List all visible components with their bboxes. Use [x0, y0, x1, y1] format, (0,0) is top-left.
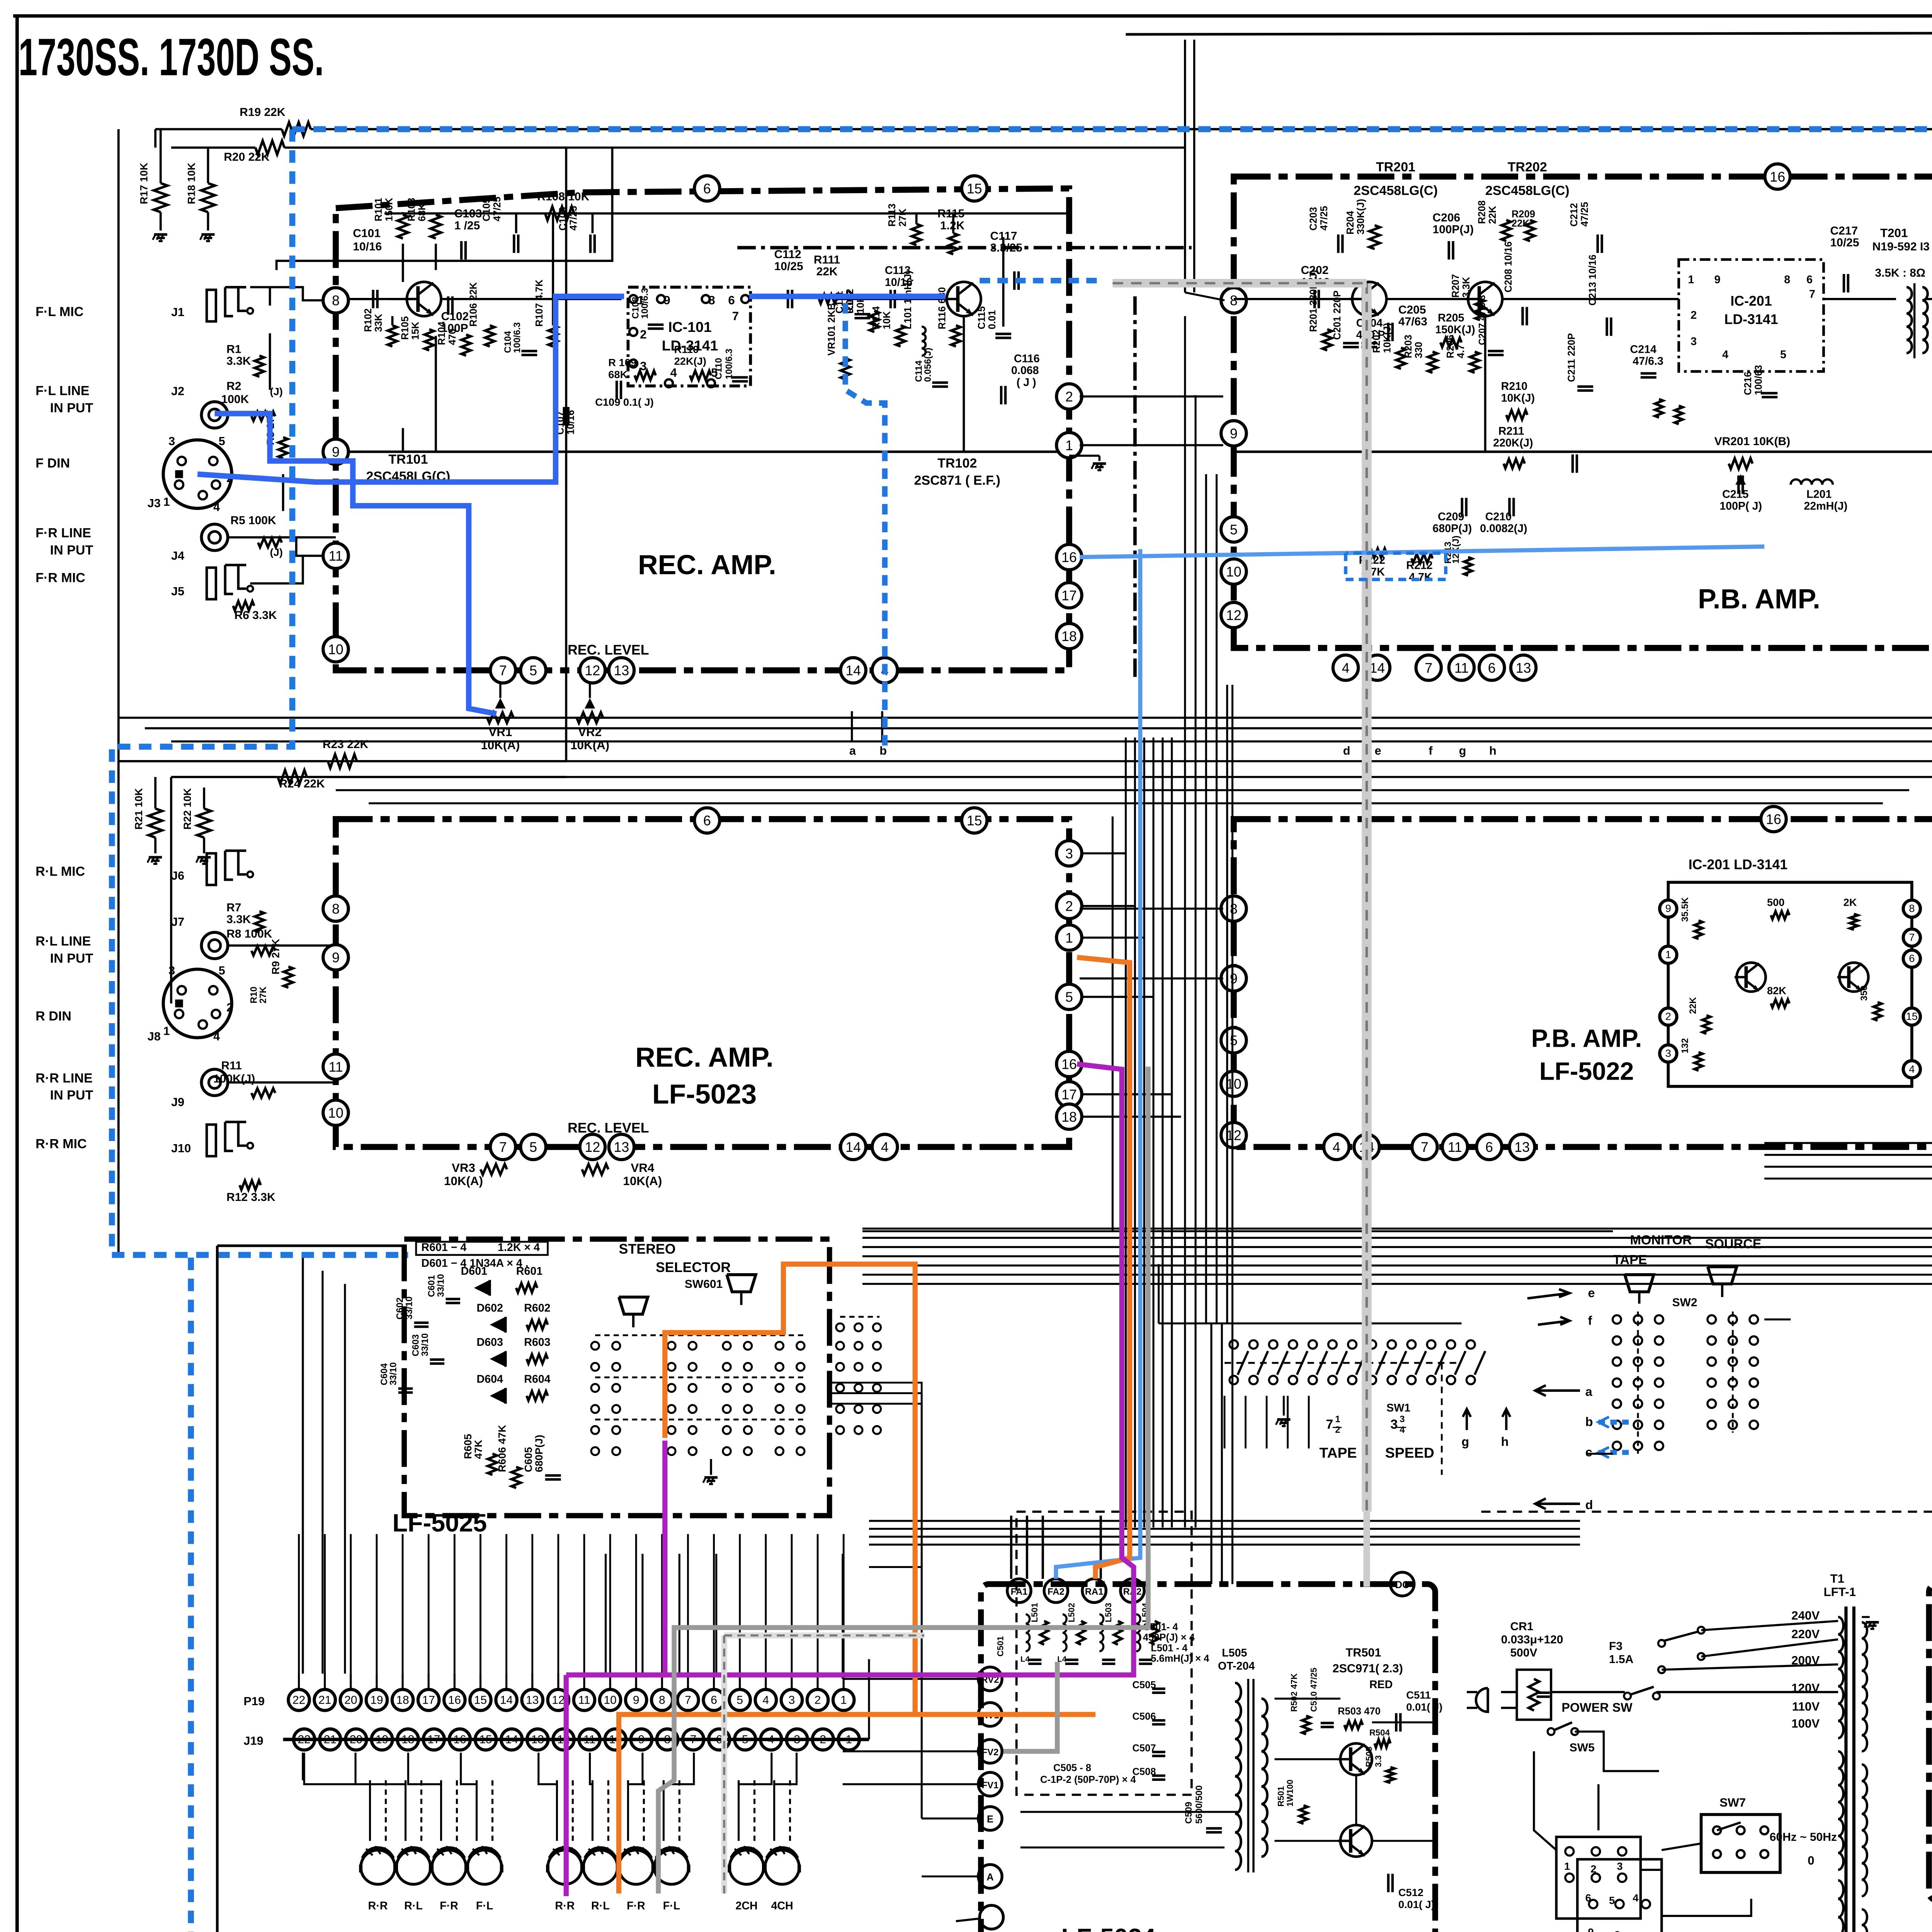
horizontal bus 600	[336, 790, 1909, 791]
svg-text:33K: 33K	[373, 314, 384, 332]
svg-text:33/10: 33/10	[420, 1333, 430, 1356]
svg-text:500V: 500V	[1510, 1646, 1537, 1659]
svg-text:5: 5	[529, 1139, 537, 1155]
IC-201 mid transistor 1	[1735, 963, 1766, 992]
connector J19 row	[294, 1729, 315, 1750]
svg-text:4CH: 4CH	[771, 1900, 793, 1912]
head bus wires	[303, 1753, 303, 1781]
svg-text:F DIN: F DIN	[36, 456, 70, 471]
svg-text:8: 8	[1230, 293, 1238, 308]
svg-text:1: 1	[163, 1025, 170, 1038]
bus into sw1	[1224, 1396, 1225, 1448]
mid horizontal bundle	[862, 1228, 1932, 1229]
svg-text:1: 1	[1564, 1860, 1570, 1872]
IC-201 mid transistor 2	[1837, 963, 1869, 992]
T1 ground	[1866, 1622, 1879, 1622]
svg-text:8: 8	[1909, 902, 1915, 914]
svg-text:J7: J7	[171, 915, 184, 929]
monitor knob	[1625, 1275, 1654, 1292]
blue dash c	[1599, 1452, 1633, 1453]
svg-text:SELECTOR: SELECTOR	[656, 1260, 731, 1275]
svg-text:R 109: R 109	[608, 357, 636, 369]
svg-text:VR3: VR3	[452, 1161, 475, 1175]
wire left bus vertical	[118, 129, 119, 761]
svg-text:REC. AMP.: REC. AMP.	[635, 1042, 774, 1073]
svg-text:4: 4	[213, 1030, 220, 1043]
svg-text:R103: R103	[406, 198, 417, 221]
svg-text:5.6mH(J) × 4: 5.6mH(J) × 4	[1151, 1653, 1209, 1664]
svg-text:R208: R208	[1477, 201, 1488, 224]
svg-text:(J): (J)	[270, 386, 283, 398]
svg-text:FA1: FA1	[1011, 1587, 1028, 1597]
svg-text:5600/500: 5600/500	[1194, 1785, 1204, 1823]
long horizontals mid	[119, 717, 1932, 718]
ground R17	[154, 234, 167, 235]
REC AMP block border	[336, 189, 1069, 670]
svg-text:R9 27K: R9 27K	[269, 939, 281, 975]
rca jack J7	[201, 932, 228, 959]
svg-text:C110: C110	[713, 358, 724, 379]
svg-text:g: g	[1459, 744, 1466, 757]
svg-text:J2: J2	[171, 385, 184, 398]
svg-text:J4: J4	[171, 549, 184, 563]
svg-text:470: 470	[447, 329, 458, 345]
purple head drop	[565, 1675, 567, 1896]
svg-text:3.3K: 3.3K	[1461, 277, 1472, 298]
LF-5024 block border	[981, 1584, 1435, 1932]
svg-text:T201: T201	[1880, 226, 1908, 240]
svg-text:R207: R207	[1451, 274, 1461, 298]
svg-text:15: 15	[967, 181, 982, 197]
terminal RA2	[1121, 1579, 1144, 1602]
svg-text:0: 0	[1808, 1854, 1814, 1867]
LF-5023 pins left	[323, 896, 348, 921]
svg-text:T1: T1	[1830, 1572, 1845, 1585]
svg-text:TR202: TR202	[1508, 160, 1547, 174]
terminal FA2	[1044, 1579, 1068, 1602]
svg-text:6: 6	[1806, 274, 1813, 286]
svg-text:F·R MIC: F·R MIC	[36, 570, 85, 585]
svg-text:SPEED: SPEED	[1385, 1445, 1434, 1461]
LF-5023 right pin stubs	[1082, 853, 1126, 854]
svg-text:9: 9	[633, 1694, 639, 1706]
ground R22	[197, 857, 211, 858]
svg-text:f: f	[1588, 1313, 1592, 1327]
T1 primary coil	[1838, 1617, 1844, 1634]
LF-5026 block border	[1929, 1584, 1932, 1900]
svg-text:8: 8	[1784, 274, 1790, 286]
svg-text:1: 1	[1688, 274, 1694, 286]
svg-text:CR1: CR1	[1510, 1620, 1533, 1633]
svg-text:IC-201: IC-201	[1730, 293, 1772, 309]
svg-text:TR201: TR201	[1376, 160, 1415, 174]
center vertical bundle2	[1185, 316, 1185, 1527]
svg-text:15: 15	[1906, 1010, 1918, 1022]
svg-text:R12 3.3K: R12 3.3K	[226, 1191, 276, 1204]
E head coils	[730, 1850, 764, 1884]
svg-text:STEREO: STEREO	[619, 1241, 676, 1257]
svg-text:35.5K: 35.5K	[1680, 897, 1690, 922]
svg-text:P.B. AMP.: P.B. AMP.	[1698, 584, 1820, 615]
svg-text:f: f	[1429, 744, 1433, 757]
svg-text:C203: C203	[1308, 207, 1319, 231]
svg-text:9: 9	[1588, 1926, 1594, 1932]
REC AMP pins left	[323, 288, 348, 313]
LF-5022 pins bottom	[1324, 1134, 1349, 1160]
svg-text:F·L: F·L	[663, 1900, 680, 1912]
svg-text:R604: R604	[524, 1373, 550, 1385]
svg-text:4: 4	[1909, 1063, 1915, 1075]
transistor TR102	[944, 282, 981, 316]
pin link wires mid blocks	[1080, 908, 1223, 909]
T1 secondary coil	[1862, 1622, 1867, 1638]
P.B. AMP top block border	[1234, 177, 1932, 648]
svg-text:C512: C512	[1398, 1886, 1423, 1898]
top feed wires	[336, 129, 1932, 129]
svg-text:REC. LEVEL: REC. LEVEL	[568, 1120, 649, 1136]
gray-white band bottom	[1366, 1512, 1368, 1587]
dash-dot link between blocks	[1134, 296, 1136, 678]
ground R18	[201, 234, 214, 235]
svg-text:7: 7	[1425, 660, 1432, 676]
P.B. AMP pins top	[1765, 164, 1790, 189]
svg-text:6: 6	[1909, 952, 1915, 964]
svg-text:R19 22K: R19 22K	[240, 106, 286, 119]
svg-text:RA1: RA1	[1085, 1587, 1104, 1597]
svg-text:47/63: 47/63	[1398, 315, 1427, 328]
mic jack J6	[207, 853, 216, 885]
svg-text:2: 2	[640, 328, 646, 341]
svg-text:R·L: R·L	[591, 1900, 610, 1912]
svg-text:1: 1	[1065, 930, 1073, 946]
svg-text:2K: 2K	[1844, 896, 1857, 908]
svg-text:J3: J3	[148, 497, 161, 510]
mic jack J1	[207, 290, 216, 321]
svg-text:A: A	[986, 1872, 993, 1883]
PB AMP top wires	[1234, 299, 1352, 299]
svg-text:1.2K × 4: 1.2K × 4	[498, 1242, 540, 1254]
IC-201 mid pins	[1660, 900, 1677, 917]
svg-text:E: E	[987, 1814, 993, 1825]
svg-text:220K(J): 220K(J)	[1493, 437, 1533, 449]
svg-text:13: 13	[614, 1139, 629, 1155]
svg-text:R108 10K: R108 10K	[537, 190, 589, 203]
svg-text:h: h	[1489, 744, 1497, 757]
wire mid left	[270, 333, 270, 390]
svg-text:C112: C112	[774, 248, 801, 261]
rca jack J9	[201, 1069, 228, 1095]
svg-text:C214: C214	[1630, 344, 1656, 356]
selector matrix columns	[591, 1342, 599, 1350]
ground selector	[704, 1477, 718, 1478]
svg-text:7: 7	[499, 1139, 507, 1155]
connector J20 box	[1556, 1837, 1641, 1918]
svg-text:FV1: FV1	[982, 1780, 999, 1791]
svg-text:7: 7	[1809, 288, 1815, 300]
C501-C504 caps	[1028, 1660, 1041, 1660]
blue solid IC to TR102	[749, 296, 946, 297]
svg-text:100/6.3: 100/6.3	[640, 288, 650, 319]
svg-text:R501: R501	[1276, 1786, 1286, 1807]
svg-text:9: 9	[1665, 902, 1671, 914]
svg-text:7: 7	[1421, 1139, 1429, 1155]
svg-text:F·R LINE: F·R LINE	[36, 526, 91, 541]
svg-text:C501: C501	[996, 1636, 1005, 1656]
svg-text:19: 19	[370, 1694, 383, 1706]
terminal FV2	[978, 1740, 1002, 1763]
mic jack J10	[207, 1124, 216, 1156]
svg-text:L502: L502	[1067, 1603, 1077, 1622]
terminal RA1	[1082, 1579, 1106, 1602]
svg-text:C510 47/25: C510 47/25	[1309, 1668, 1319, 1712]
svg-text:0.033μ+120: 0.033μ+120	[1501, 1633, 1563, 1646]
pin link wires top blocks	[1080, 396, 1223, 397]
svg-text:2CH: 2CH	[735, 1900, 757, 1912]
wires to RV terminals	[843, 1679, 978, 1679]
svg-text:VR201 10K(B): VR201 10K(B)	[1714, 435, 1791, 448]
svg-text:3: 3	[1400, 1414, 1405, 1425]
svg-text:IN PUT: IN PUT	[50, 543, 93, 558]
transistor TR101	[404, 282, 441, 316]
svg-text:13: 13	[526, 1694, 539, 1706]
svg-text:L501: L501	[1030, 1603, 1039, 1622]
TAPE SPEED switch contacts	[1230, 1340, 1238, 1349]
svg-text:(J): (J)	[270, 546, 283, 558]
svg-text:R111: R111	[814, 253, 840, 266]
selector matrix right columns	[836, 1323, 844, 1331]
svg-text:VR4: VR4	[631, 1161, 655, 1175]
svg-text:g: g	[1461, 1435, 1469, 1449]
svg-text:4: 4	[1333, 1139, 1340, 1155]
svg-text:FA2: FA2	[1048, 1587, 1065, 1597]
svg-text:12: 12	[1226, 1128, 1242, 1143]
svg-text:R102: R102	[363, 308, 374, 332]
svg-text:C216: C216	[1743, 372, 1753, 395]
svg-text:27K: 27K	[258, 986, 268, 1003]
svg-text:132: 132	[1680, 1038, 1690, 1054]
svg-text:4.7K: 4.7K	[1409, 571, 1432, 583]
svg-text:12: 12	[585, 1139, 600, 1155]
svg-text:330: 330	[1413, 342, 1424, 359]
svg-text:10: 10	[604, 1694, 616, 1706]
svg-text:240V: 240V	[1791, 1609, 1820, 1622]
resistor R214 35.5K etc	[1655, 399, 1663, 418]
svg-text:C115: C115	[976, 306, 987, 330]
svg-text:N19-592 I3: N19-592 I3	[1872, 240, 1930, 253]
svg-text:DC: DC	[1395, 1580, 1410, 1590]
svg-text:SW7: SW7	[1719, 1796, 1746, 1810]
white dashed wire	[724, 1634, 924, 1636]
wire J9	[228, 1082, 336, 1083]
svg-text:SW5: SW5	[1570, 1741, 1595, 1754]
svg-text:J19: J19	[243, 1734, 263, 1747]
svg-text:47/25: 47/25	[568, 206, 579, 231]
page frame left line	[17, 16, 18, 1932]
svg-text:17: 17	[422, 1694, 435, 1706]
wire left bus2	[171, 777, 172, 1003]
IC-201 box (top)	[1679, 260, 1824, 372]
svg-text:R2: R2	[226, 380, 241, 393]
svg-text:1W100: 1W100	[1285, 1779, 1295, 1806]
svg-text:6: 6	[703, 181, 711, 197]
svg-text:F·L: F·L	[476, 1900, 493, 1912]
svg-text:16: 16	[448, 1694, 461, 1706]
svg-text:10K: 10K	[882, 311, 893, 329]
svg-text:J10: J10	[171, 1142, 191, 1155]
selector knob 1	[619, 1297, 648, 1314]
wire J7	[228, 945, 336, 946]
svg-text:R·R LINE: R·R LINE	[36, 1071, 93, 1085]
svg-text:2SC971( 2.3): 2SC971( 2.3)	[1332, 1662, 1403, 1675]
svg-text:R23 22K: R23 22K	[323, 738, 369, 751]
svg-text:C511: C511	[1406, 1689, 1431, 1701]
svg-text:R505: R505	[1364, 1747, 1374, 1767]
svg-text:22K: 22K	[1688, 997, 1698, 1014]
svg-text:8: 8	[1230, 901, 1238, 917]
svg-text:R DIN: R DIN	[36, 1009, 71, 1024]
rca jack J4	[201, 524, 228, 551]
svg-text:C215: C215	[1722, 488, 1748, 500]
svg-text:L503: L503	[1104, 1603, 1113, 1622]
svg-text:15: 15	[967, 813, 982, 828]
svg-text:4: 4	[881, 1139, 889, 1155]
J19 bus line	[283, 1739, 869, 1740]
blue solid J2 path	[214, 413, 496, 714]
svg-text:7: 7	[499, 663, 507, 679]
wire J4 line	[228, 537, 336, 538]
arrow a	[1535, 1385, 1580, 1396]
svg-text:14: 14	[1369, 660, 1385, 676]
svg-text:LF-5025: LF-5025	[392, 1509, 487, 1537]
DIN connector J3	[163, 440, 232, 508]
P.B. AMP LF-5022 block border	[1234, 819, 1932, 1147]
svg-text:4: 4	[1400, 1425, 1405, 1435]
svg-text:10K(A): 10K(A)	[623, 1174, 662, 1188]
svg-text:R603: R603	[524, 1336, 550, 1349]
svg-text:14: 14	[845, 1139, 861, 1155]
svg-text:IN PUT: IN PUT	[50, 951, 93, 966]
svg-text:11: 11	[1454, 660, 1469, 676]
svg-text:4: 4	[670, 366, 677, 379]
svg-text:R601 − 4: R601 − 4	[421, 1242, 466, 1254]
svg-text:10/16: 10/16	[353, 240, 382, 253]
svg-text:8: 8	[1614, 1929, 1620, 1932]
svg-text:27K: 27K	[897, 208, 908, 226]
J20 wires	[1534, 1751, 1556, 1850]
svg-text:7: 7	[1909, 931, 1915, 943]
REC head coils	[548, 1850, 582, 1884]
svg-text:R8 100K: R8 100K	[226, 928, 272, 940]
svg-text:100/6.3: 100/6.3	[724, 349, 735, 379]
terminal RV2	[978, 1667, 1002, 1690]
LF-5025 block border	[404, 1239, 830, 1516]
black verticals to FA terminals	[1011, 1515, 1012, 1579]
svg-text:1 /25: 1 /25	[454, 219, 480, 232]
svg-text:450P(J) × 4: 450P(J) × 4	[1143, 1632, 1195, 1643]
wire left input outer	[277, 148, 612, 270]
terminal gnd circle	[980, 1905, 1003, 1929]
svg-text:10K(J): 10K(J)	[1382, 323, 1393, 353]
connector P19 row	[288, 1689, 310, 1711]
svg-text:C206: C206	[1432, 211, 1460, 224]
svg-text:R203: R203	[1403, 335, 1414, 358]
terminal DC	[1390, 1572, 1414, 1596]
svg-text:C205: C205	[1398, 303, 1426, 316]
svg-text:b: b	[879, 744, 887, 757]
top double vertical to PB	[1185, 40, 1185, 293]
terminal RV1	[978, 1702, 1002, 1726]
svg-text:6: 6	[1585, 1892, 1591, 1904]
terminal E	[978, 1807, 1002, 1830]
REC AMP pins bottom	[490, 658, 515, 683]
svg-text:2SC871 ( E.F.): 2SC871 ( E.F.)	[914, 473, 1000, 488]
svg-text:82K: 82K	[1767, 985, 1786, 997]
LF-5022 pins left	[1221, 896, 1246, 921]
svg-text:SOURCE: SOURCE	[1705, 1237, 1762, 1252]
lower horizontal bundle	[869, 1520, 1580, 1521]
svg-text:18: 18	[1061, 629, 1077, 644]
svg-text:R·L: R·L	[404, 1900, 423, 1912]
svg-text:R1: R1	[226, 343, 241, 356]
LF-5022 pins top	[1761, 806, 1786, 832]
LF-5023 pins bottom	[490, 1134, 515, 1160]
svg-text:2SC458LG(C): 2SC458LG(C)	[1354, 184, 1438, 198]
svg-text:R504: R504	[1369, 1728, 1390, 1738]
svg-text:17: 17	[1061, 588, 1077, 603]
transistor TR201	[1350, 282, 1386, 316]
svg-text:C505 - 8: C505 - 8	[1053, 1763, 1091, 1774]
svg-text:TR101: TR101	[388, 452, 428, 467]
svg-text:100/6.3: 100/6.3	[512, 322, 522, 353]
svg-text:3: 3	[1390, 1417, 1398, 1432]
svg-text:10: 10	[328, 642, 344, 657]
SW2 dashed	[1638, 1311, 1638, 1454]
svg-text:330K(J): 330K(J)	[1355, 199, 1366, 235]
svg-text:10: 10	[1226, 1077, 1242, 1092]
svg-text:TAPE: TAPE	[1319, 1445, 1357, 1461]
svg-text:9: 9	[332, 444, 340, 460]
svg-text:17: 17	[1061, 1087, 1077, 1102]
svg-text:R·R MIC: R·R MIC	[36, 1137, 87, 1151]
svg-text:J5: J5	[171, 585, 184, 598]
svg-text:11: 11	[328, 548, 343, 564]
svg-text:b: b	[1585, 1415, 1593, 1429]
orange selector loop	[665, 1264, 1095, 1714]
svg-text:3.3K: 3.3K	[226, 913, 251, 926]
svg-text:R5 100K: R5 100K	[230, 514, 276, 527]
LF-5024 wires	[1372, 1722, 1435, 1723]
svg-text:LD-3141: LD-3141	[1724, 312, 1778, 327]
svg-text:8: 8	[659, 1694, 665, 1706]
svg-text:RED: RED	[1369, 1679, 1393, 1691]
svg-text:2SC458LG(C): 2SC458LG(C)	[1485, 184, 1570, 198]
svg-text:10/25: 10/25	[1830, 236, 1859, 249]
svg-text:2: 2	[1335, 1425, 1340, 1435]
svg-text:P19: P19	[243, 1695, 265, 1708]
svg-text:68K: 68K	[417, 203, 428, 221]
svg-text:100V: 100V	[1791, 1717, 1820, 1730]
svg-text:2: 2	[1590, 1863, 1596, 1875]
svg-text:IC-101: IC-101	[668, 319, 711, 335]
svg-text:3: 3	[789, 1694, 795, 1706]
svg-text:47K: 47K	[472, 1440, 484, 1459]
mic jack J5	[207, 568, 216, 599]
svg-text:R11: R11	[221, 1059, 241, 1072]
svg-text:R210: R210	[1501, 380, 1527, 393]
TAPE SPEED dashed	[1225, 1362, 1461, 1363]
svg-text:R18 10K: R18 10K	[185, 163, 197, 204]
CR1 box	[1517, 1670, 1551, 1719]
